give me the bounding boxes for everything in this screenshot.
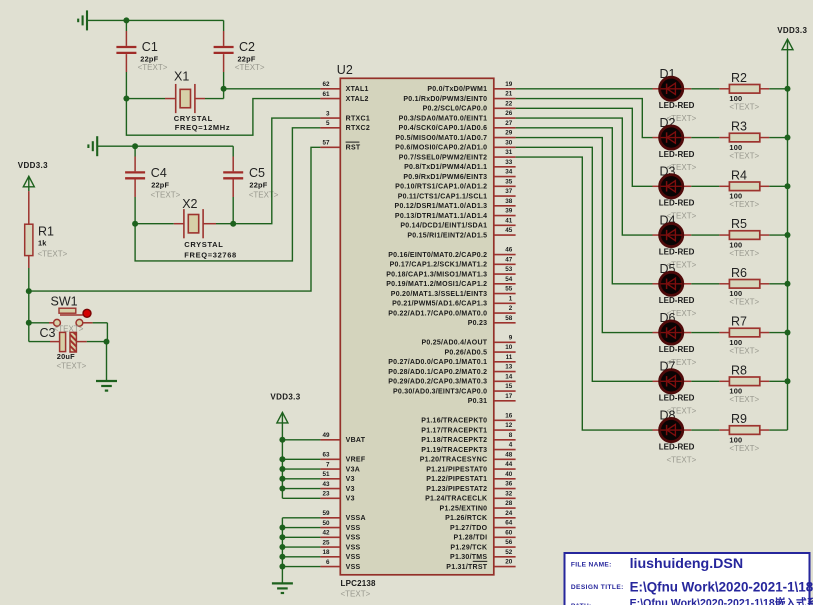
svg-text:P0.29/AD0.2/CAP0.3/MAT0.3: P0.29/AD0.2/CAP0.3/MAT0.3 <box>388 379 487 386</box>
svg-text:29: 29 <box>505 130 513 137</box>
svg-text:P0.12/DSR1/MAT1.0/AD1.3: P0.12/DSR1/MAT1.0/AD1.3 <box>395 203 488 210</box>
wire P0.5 to D6 <box>516 138 653 333</box>
U2 pin 35 P0.10/RTS1/CAP1.0/AD1.2 <box>395 178 515 190</box>
svg-text:<TEXT>: <TEXT> <box>57 362 87 371</box>
svg-text:60: 60 <box>505 529 513 536</box>
svg-text:4: 4 <box>509 442 513 449</box>
node junction SW1 left <box>26 320 32 326</box>
svg-text:35: 35 <box>505 178 513 185</box>
svg-text:44: 44 <box>505 461 513 468</box>
svg-text:28: 28 <box>505 500 513 507</box>
wire P0.7 to D8 <box>516 157 653 430</box>
svg-text:<TEXT>: <TEXT> <box>729 249 759 258</box>
wire P0.6 to D7 <box>516 147 653 381</box>
U2 pin 16 P1.16/TRACEPKT0 <box>421 412 515 424</box>
node VSS bus junction <box>279 525 285 531</box>
svg-text:CRYSTAL: CRYSTAL <box>174 114 213 123</box>
svg-text:FILE NAME:: FILE NAME: <box>571 561 612 568</box>
U2 pin 51 V3 <box>320 471 354 483</box>
capacitor C3 (electrolytic 20uF) <box>29 326 107 371</box>
svg-text:P1.20/TRACESYNC: P1.20/TRACESYNC <box>420 457 488 464</box>
svg-text:P0.11/CTS1/CAP1.1/SCL1: P0.11/CTS1/CAP1.1/SCL1 <box>398 193 488 200</box>
wire VDD bus to pin <box>282 488 320 490</box>
U2 pin 31 P0.7/SSEL0/PWM2/EINT2 <box>399 149 516 161</box>
svg-text:10: 10 <box>505 344 513 351</box>
resistor R6 <box>691 266 787 307</box>
LED D2 <box>653 116 697 172</box>
svg-text:23: 23 <box>322 491 330 498</box>
node LED bus junction <box>785 183 791 189</box>
U2 pin 48 P1.20/TRACESYNC <box>420 451 516 463</box>
svg-text:18: 18 <box>322 549 330 556</box>
U2 pin 14 P0.29/AD0.2/CAP0.3/MAT0.3 <box>388 373 515 385</box>
U2 pin 27 P0.4/SCK0/CAP0.1/AD0.6 <box>399 120 516 132</box>
svg-text:VSS: VSS <box>346 535 361 542</box>
svg-text:R4: R4 <box>731 168 747 182</box>
U2 pin 36 P1.23/PIPESTAT2 <box>426 481 515 493</box>
svg-text:38: 38 <box>505 198 513 205</box>
svg-text:P0.30/AD0.3/EINT3/CAP0.0: P0.30/AD0.3/EINT3/CAP0.0 <box>393 388 487 395</box>
node junction C1/X1 left <box>123 96 129 102</box>
svg-text:P0.5/MISO0/MAT0.1/AD0.7: P0.5/MISO0/MAT0.1/AD0.7 <box>395 135 487 142</box>
svg-text:RTXC2: RTXC2 <box>346 125 370 132</box>
wire X2 top rail <box>97 145 233 147</box>
U2 pin 3 RTXC1 <box>320 110 370 122</box>
svg-text:<TEXT>: <TEXT> <box>729 298 759 307</box>
svg-text:VSS: VSS <box>346 544 361 551</box>
U2 pin 63 VREF <box>320 452 365 464</box>
svg-text:RTXC1: RTXC1 <box>346 115 370 122</box>
svg-text:V3: V3 <box>346 496 355 503</box>
resistor R8 <box>691 363 787 404</box>
svg-text:15: 15 <box>505 383 513 390</box>
node LED bus junction <box>785 281 791 287</box>
svg-text:E:\Qfnu Work\2020-2021-1\18: E:\Qfnu Work\2020-2021-1\18 <box>630 580 813 595</box>
svg-text:<TEXT>: <TEXT> <box>235 63 265 72</box>
svg-text:VSS: VSS <box>346 525 361 532</box>
svg-text:58: 58 <box>505 315 513 322</box>
svg-text:P1.17/TRACEPKT1: P1.17/TRACEPKT1 <box>421 427 487 434</box>
svg-text:P1.24/TRACECLK: P1.24/TRACECLK <box>425 496 487 503</box>
svg-text:C3: C3 <box>40 326 56 340</box>
ground (top-left, sideways) <box>78 10 87 30</box>
svg-text:<TEXT>: <TEXT> <box>38 249 68 258</box>
ground (below C3) <box>96 381 117 391</box>
svg-text:V3: V3 <box>346 486 355 493</box>
U2 pin 2 P0.22/AD1.7/CAP0.0/MAT0.0 <box>388 305 515 317</box>
svg-text:X1: X1 <box>174 70 189 84</box>
svg-text:45: 45 <box>505 227 513 234</box>
svg-text:16: 16 <box>505 412 513 419</box>
svg-text:6: 6 <box>326 559 330 566</box>
svg-text:VDD3.3: VDD3.3 <box>18 161 48 170</box>
node VSS bus junction <box>279 564 285 570</box>
U2 pin 9 P0.25/AD0.4/AOUT <box>421 334 515 346</box>
svg-text:LED-RED: LED-RED <box>659 150 695 159</box>
LED D4 <box>653 213 697 269</box>
svg-text:<TEXT>: <TEXT> <box>729 444 759 453</box>
svg-text:36: 36 <box>505 481 513 488</box>
svg-text:P0.26/AD0.5: P0.26/AD0.5 <box>444 349 487 356</box>
U2 pin 24 P1.26/RTCK <box>445 510 515 522</box>
capacitor C4 <box>125 146 181 224</box>
wire X1 right to XTAL1 node <box>223 89 225 99</box>
svg-text:55: 55 <box>505 286 513 293</box>
svg-text:VREF: VREF <box>346 457 366 464</box>
svg-text:CRYSTAL: CRYSTAL <box>184 240 223 249</box>
svg-text:P1.21/PIPESTAT0: P1.21/PIPESTAT0 <box>426 466 487 473</box>
U2 pin 26 P0.3/SDA0/MAT0.0/EINT1 <box>399 110 516 122</box>
svg-text:P0.1/RxD0/PWM3/EINT0: P0.1/RxD0/PWM3/EINT0 <box>403 96 487 103</box>
svg-text:P0.19/MAT1.2/MOSI1/CAP1.2: P0.19/MAT1.2/MOSI1/CAP1.2 <box>386 281 487 288</box>
svg-text:U2: U2 <box>337 63 353 77</box>
U2 pin 20 P1.31/TRST <box>446 559 515 571</box>
U2 pin 58 P0.23 <box>468 315 516 327</box>
svg-text:7: 7 <box>326 461 330 468</box>
svg-text:R9: R9 <box>731 412 747 426</box>
U2 pin 28 P1.25/EXTIN0 <box>440 500 516 512</box>
capacitor C2 <box>214 20 265 88</box>
node VDD bus junction <box>279 486 285 492</box>
svg-text:30: 30 <box>505 139 513 146</box>
U2 pin 62 XTAL1 <box>320 81 368 93</box>
svg-text:2: 2 <box>509 305 513 312</box>
wire top rail ground to C2 <box>87 19 224 21</box>
svg-text:9: 9 <box>509 334 513 341</box>
U2 pin 49 VBAT <box>320 432 365 444</box>
svg-text:C1: C1 <box>142 40 158 54</box>
svg-text:P0.20/MAT1.3/SSEL1/EINT3: P0.20/MAT1.3/SSEL1/EINT3 <box>391 291 488 298</box>
svg-text:25: 25 <box>322 539 330 546</box>
U2 pin 56 P1.29/TCK <box>450 539 515 551</box>
svg-text:22pF: 22pF <box>249 181 267 190</box>
svg-text:P0.8/TxD1/PWM4/AD1.1: P0.8/TxD1/PWM4/AD1.1 <box>404 164 487 171</box>
svg-text:14: 14 <box>505 373 513 380</box>
svg-text:51: 51 <box>322 471 330 478</box>
node junction R1/RST <box>26 288 32 294</box>
svg-text:R1: R1 <box>38 225 54 239</box>
svg-text:P1.28/TDI: P1.28/TDI <box>454 535 488 542</box>
svg-text:<TEXT>: <TEXT> <box>729 200 759 209</box>
U2 pin 21 P0.1/RxD0/PWM3/EINT0 <box>403 91 515 103</box>
svg-text:P1.27/TDO: P1.27/TDO <box>450 525 488 532</box>
svg-text:56: 56 <box>505 539 513 546</box>
svg-text:1: 1 <box>509 295 513 302</box>
svg-text:12: 12 <box>505 422 513 429</box>
node LED bus junction <box>785 232 791 238</box>
LED D7 <box>653 360 697 416</box>
svg-text:P0.4/SCK0/CAP0.1/AD0.6: P0.4/SCK0/CAP0.1/AD0.6 <box>399 125 488 132</box>
svg-text:P1.19/TRACEPKT3: P1.19/TRACEPKT3 <box>421 447 487 454</box>
svg-text:P0.15/RI1/EINT2/AD1.5: P0.15/RI1/EINT2/AD1.5 <box>407 232 487 239</box>
node junction C1/top rail <box>123 17 129 23</box>
svg-text:P0.13/DTR1/MAT1.1/AD1.4: P0.13/DTR1/MAT1.1/AD1.4 <box>395 213 487 220</box>
U2 pin 12 P1.17/TRACEPKT1 <box>421 422 515 434</box>
U2 pin 47 P0.17/CAP1.2/SCK1/MAT1.2 <box>390 256 516 268</box>
svg-text:32: 32 <box>505 490 513 497</box>
U2 pin 7 V3A <box>320 461 360 473</box>
svg-text:20uF: 20uF <box>57 352 75 361</box>
svg-text:P1.26/RTCK: P1.26/RTCK <box>445 515 487 522</box>
svg-text:P1.16/TRACEPKT0: P1.16/TRACEPKT0 <box>421 418 487 425</box>
svg-text:57: 57 <box>322 140 330 147</box>
svg-text:49: 49 <box>322 432 330 439</box>
svg-text:39: 39 <box>505 208 513 215</box>
svg-text:P0.21/PWM5/AD1.6/CAP1.3: P0.21/PWM5/AD1.6/CAP1.3 <box>392 301 487 308</box>
LED D1 <box>653 67 697 123</box>
svg-text:C5: C5 <box>249 166 265 180</box>
LED D8 <box>653 408 697 464</box>
svg-text:P1.31/TRST: P1.31/TRST <box>446 564 487 571</box>
LED D3 <box>653 165 697 221</box>
svg-text:61: 61 <box>322 91 330 98</box>
U2 pin 38 P0.12/DSR1/MAT1.0/AD1.3 <box>395 198 516 210</box>
svg-text:E:\Qfnu Work\2020-2021-1\18嵌入式: E:\Qfnu Work\2020-2021-1\18嵌入式系 <box>630 596 813 605</box>
wire VDD bus to pin <box>282 458 320 460</box>
wire X2 left loop to RTXC2 <box>135 128 320 261</box>
svg-text:46: 46 <box>505 247 513 254</box>
svg-text:P1.22/PIPESTAT1: P1.22/PIPESTAT1 <box>426 476 487 483</box>
U2 pin 30 P0.6/MOSI0/CAP0.2/AD1.0 <box>395 139 515 151</box>
node LED bus junction <box>785 135 791 141</box>
svg-text:RST: RST <box>346 145 361 152</box>
svg-text:P1.30/TMS: P1.30/TMS <box>450 554 487 561</box>
U2 pin 41 P0.14/DCD1/EINT1/SDA1 <box>400 217 515 229</box>
wire VSS bus to pin <box>282 566 320 568</box>
svg-text:P0.3/SDA0/MAT0.0/EINT1: P0.3/SDA0/MAT0.0/EINT1 <box>399 115 488 122</box>
crystal X2 <box>135 197 237 260</box>
svg-text:1k: 1k <box>38 239 47 248</box>
svg-text:P1.23/PIPESTAT2: P1.23/PIPESTAT2 <box>426 486 487 493</box>
svg-text:<TEXT>: <TEXT> <box>729 395 759 404</box>
wire VSS bus to pin <box>282 556 320 558</box>
U2 pin 42 VSS <box>320 530 360 542</box>
wire VDD bus <box>281 440 283 499</box>
wire XTAL1 net <box>224 88 321 90</box>
svg-text:42: 42 <box>322 530 330 537</box>
capacitor C5 <box>223 146 279 224</box>
svg-text:LED-RED: LED-RED <box>659 442 695 451</box>
wire VSS bus <box>281 518 283 584</box>
svg-text:P0.18/CAP1.3/MISO1/MAT1.3: P0.18/CAP1.3/MISO1/MAT1.3 <box>386 271 487 278</box>
svg-text:P0.14/DCD1/EINT1/SDA1: P0.14/DCD1/EINT1/SDA1 <box>400 223 487 230</box>
svg-text:SW1: SW1 <box>51 295 78 309</box>
svg-text:LED-RED: LED-RED <box>659 199 695 208</box>
svg-text:VDD3.3: VDD3.3 <box>270 392 300 401</box>
node VSS bus junction <box>279 554 285 560</box>
svg-text:26: 26 <box>505 110 513 117</box>
svg-text:VDD3.3: VDD3.3 <box>777 26 807 35</box>
switch SW1 <box>29 295 108 334</box>
U2 pin 1 P0.21/PWM5/AD1.6/CAP1.3 <box>392 295 516 307</box>
wire X2 right to RTXC1 <box>233 118 320 224</box>
U2 pin 43 V3 <box>320 481 354 493</box>
svg-text:LPC2138: LPC2138 <box>341 579 377 588</box>
svg-text:13: 13 <box>505 364 513 371</box>
U2 pin 4 P1.19/TRACEPKT3 <box>421 442 515 454</box>
svg-text:<TEXT>: <TEXT> <box>341 590 371 599</box>
svg-text:47: 47 <box>505 256 513 263</box>
resistor R1 <box>25 191 68 291</box>
U2 pin 37 P0.11/CTS1/CAP1.1/SCL1 <box>398 188 516 200</box>
svg-text:R8: R8 <box>731 363 747 377</box>
U2 pin 10 P0.26/AD0.5 <box>444 344 515 356</box>
svg-text:52: 52 <box>505 549 513 556</box>
svg-text:P0.17/CAP1.2/SCK1/MAT1.2: P0.17/CAP1.2/SCK1/MAT1.2 <box>390 262 488 269</box>
U2 pin 5 RTXC2 <box>320 120 370 132</box>
U2 pin 53 P0.18/CAP1.3/MISO1/MAT1.3 <box>386 266 515 278</box>
svg-text:R3: R3 <box>731 120 747 134</box>
svg-text:P1.25/EXTIN0: P1.25/EXTIN0 <box>440 505 488 512</box>
svg-text:XTAL1: XTAL1 <box>346 86 369 93</box>
svg-text:37: 37 <box>505 188 513 195</box>
node LED bus junction <box>785 86 791 92</box>
node junction C5/X2 right <box>230 221 236 227</box>
U2 pin 39 P0.13/DTR1/MAT1.1/AD1.4 <box>395 208 516 220</box>
U2 pin 17 P0.31 <box>468 393 516 405</box>
LED D5 <box>653 262 697 318</box>
wire VDD bus to pin <box>282 497 320 499</box>
U2 pin 15 P0.30/AD0.3/EINT3/CAP0.0 <box>393 383 516 395</box>
U2 pin 52 P1.30/TMS <box>450 549 516 561</box>
resistor R9 <box>691 412 787 453</box>
U2 pin 44 P1.21/PIPESTAT0 <box>426 461 515 473</box>
capacitor C1 <box>116 20 167 98</box>
title block <box>565 553 813 605</box>
svg-text:<TEXT>: <TEXT> <box>729 151 759 160</box>
U2 pin 57 RST <box>320 140 361 152</box>
svg-text:FREQ=32768: FREQ=32768 <box>184 251 237 260</box>
node junction C4/top rail <box>132 143 138 149</box>
U2 pin 64 P1.27/TDO <box>450 520 516 532</box>
svg-text:FREQ=12MHz: FREQ=12MHz <box>175 123 230 132</box>
node VDD bus junction <box>279 476 285 482</box>
svg-text:P0.25/AD0.4/AOUT: P0.25/AD0.4/AOUT <box>421 340 487 347</box>
svg-text:33: 33 <box>505 159 513 166</box>
U2 pin 50 VSS <box>320 520 360 532</box>
wire P0.1 to D2 <box>516 99 653 138</box>
svg-text:P0.9/RxD1/PWM6/EINT3: P0.9/RxD1/PWM6/EINT3 <box>403 174 487 181</box>
svg-text:C4: C4 <box>151 166 167 180</box>
wire XTAL2 net loop <box>126 99 320 136</box>
svg-text:VSS: VSS <box>346 564 361 571</box>
svg-text:50: 50 <box>322 520 330 527</box>
U2 pin 46 P0.16/EINT0/MAT0.2/CAP0.2 <box>388 247 515 259</box>
svg-text:P0.6/MOSI0/CAP0.2/AD1.0: P0.6/MOSI0/CAP0.2/AD1.0 <box>395 145 487 152</box>
wire SW1 right down <box>106 323 108 342</box>
node junction C3 right <box>104 339 110 345</box>
svg-text:DESIGN TITLE:: DESIGN TITLE: <box>571 584 624 591</box>
power VDD3.3 (U2 supply) <box>270 392 300 440</box>
svg-text:VSSA: VSSA <box>346 515 366 522</box>
svg-text:40: 40 <box>505 471 513 478</box>
U2 pin 61 XTAL2 <box>320 91 368 103</box>
svg-text:XTAL2: XTAL2 <box>346 96 369 103</box>
svg-text:R6: R6 <box>731 266 747 280</box>
svg-text:P0.28/AD0.1/CAP0.2/MAT0.2: P0.28/AD0.1/CAP0.2/MAT0.2 <box>388 369 487 376</box>
svg-text:liushuideng.DSN: liushuideng.DSN <box>630 556 744 572</box>
svg-text:<TEXT>: <TEXT> <box>729 103 759 112</box>
svg-text:54: 54 <box>505 276 513 283</box>
svg-text:<TEXT>: <TEXT> <box>667 455 697 464</box>
wire VSS bus to pin <box>282 546 320 548</box>
svg-text:P0.27/AD0.0/CAP0.1/MAT0.1: P0.27/AD0.0/CAP0.1/MAT0.1 <box>388 359 487 366</box>
node VDD bus junction <box>279 456 285 462</box>
svg-text:P1.29/TCK: P1.29/TCK <box>450 544 487 551</box>
wire R1 bottom to SW1/C3 <box>28 291 30 342</box>
node LED bus junction <box>785 330 791 336</box>
svg-text:LED-RED: LED-RED <box>659 247 695 256</box>
svg-text:11: 11 <box>506 354 513 361</box>
svg-text:8: 8 <box>509 432 513 439</box>
resistor R5 <box>691 217 787 258</box>
IC U2 LPC2138 body <box>337 63 494 599</box>
U2 pin 40 P1.22/PIPESTAT1 <box>426 471 515 483</box>
U2 pin 19 P0.0/TxD0/PWM1 <box>427 81 515 93</box>
svg-text:24: 24 <box>505 510 513 517</box>
svg-text:21: 21 <box>505 91 513 98</box>
svg-text:P0.22/AD1.7/CAP0.0/MAT0.0: P0.22/AD1.7/CAP0.0/MAT0.0 <box>388 310 487 317</box>
wire P0.4 to D5 <box>516 128 653 284</box>
svg-text:P0.2/SCL0/CAP0.0: P0.2/SCL0/CAP0.0 <box>423 106 488 113</box>
wire P0.0 to D1 <box>516 88 653 90</box>
wire RST net <box>29 147 321 291</box>
U2 pin 59 VSSA <box>320 510 365 522</box>
svg-text:VBAT: VBAT <box>346 437 366 444</box>
svg-text:LED-RED: LED-RED <box>659 296 695 305</box>
wire VDD bus to pin <box>282 439 320 441</box>
svg-text:31: 31 <box>505 149 513 156</box>
svg-text:3: 3 <box>326 110 330 117</box>
resistor R7 <box>691 315 787 356</box>
svg-text:R7: R7 <box>731 315 747 329</box>
wire VSS bus to pin <box>282 527 320 529</box>
node VDD bus junction <box>279 437 285 443</box>
svg-text:P0.7/SSEL0/PWM2/EINT2: P0.7/SSEL0/PWM2/EINT2 <box>399 154 488 161</box>
ground (X2 group, sideways) <box>88 136 97 156</box>
svg-text:P0.23: P0.23 <box>468 320 488 327</box>
svg-text:C2: C2 <box>239 40 255 54</box>
node junction C2/XTAL1 <box>221 86 227 92</box>
ground (below U2) <box>272 583 293 593</box>
power VDD3.3 (LED bank) <box>777 26 807 89</box>
node VDD bus junction <box>279 466 285 472</box>
node junction C4/X2 left <box>132 221 138 227</box>
U2 pin 54 P0.19/MAT1.2/MOSI1/CAP1.2 <box>386 276 515 288</box>
wire P0.3 to D4 <box>516 118 653 235</box>
wire VSS bus to pin <box>282 536 320 538</box>
node VSS bus junction <box>279 534 285 540</box>
svg-text:R5: R5 <box>731 217 747 231</box>
U2 pin 8 P1.18/TRACEPKT2 <box>421 432 515 444</box>
U2 pin 55 P0.20/MAT1.3/SSEL1/EINT3 <box>391 286 516 298</box>
crystal X1 <box>126 70 230 133</box>
svg-text:R2: R2 <box>731 71 747 85</box>
wire C3 node to ground <box>106 342 108 380</box>
U2 pin 60 P1.28/TDI <box>454 529 516 541</box>
LED D6 <box>653 311 697 367</box>
wire VSS bus to pin <box>282 517 320 519</box>
node LED bus junction <box>785 378 791 384</box>
svg-text:43: 43 <box>322 481 330 488</box>
svg-text:P0.31: P0.31 <box>468 398 488 405</box>
svg-text:<TEXT>: <TEXT> <box>138 63 168 72</box>
svg-text:5: 5 <box>326 120 330 127</box>
svg-text:P0.10/RTS1/CAP1.0/AD1.2: P0.10/RTS1/CAP1.0/AD1.2 <box>395 184 487 191</box>
svg-text:<TEXT>: <TEXT> <box>54 324 84 333</box>
U2 pin 29 P0.5/MISO0/MAT0.1/AD0.7 <box>395 130 515 142</box>
svg-text:41: 41 <box>505 217 513 224</box>
